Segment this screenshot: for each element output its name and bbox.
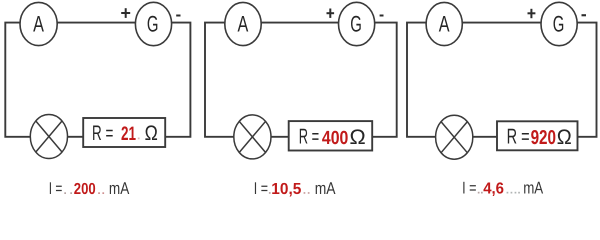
dotted blank before I3 value (478, 192, 483, 194)
wire top-mid c3 (462, 22, 541, 24)
dotted blank before I1 value (64, 192, 72, 194)
resistor R3 box (497, 121, 578, 150)
svg-text:400: 400 (322, 128, 348, 149)
resistor R2 box (289, 121, 373, 150)
svg-text:A: A (238, 11, 249, 36)
plus label c3 (528, 9, 536, 18)
ammeter A3 (426, 2, 462, 45)
galvanometer G1 (135, 2, 171, 45)
svg-text:R =: R = (299, 125, 319, 149)
svg-text:200: 200 (74, 181, 96, 198)
dotted blank before I2 value (269, 192, 271, 194)
svg-text:R =: R = (92, 122, 113, 145)
wire box-to-lamp c1 (68, 136, 84, 138)
wire left loop c2 (205, 23, 234, 137)
lamp L1 (30, 115, 67, 159)
svg-text:10,5: 10,5 (271, 181, 301, 198)
dotted blank after I3 value (507, 192, 520, 194)
svg-text:920: 920 (531, 127, 556, 149)
dotted blank after I1 value (98, 192, 104, 194)
svg-text:G: G (147, 12, 159, 37)
wire box-to-lamp c3 (473, 136, 497, 138)
svg-text:Ω: Ω (145, 122, 158, 145)
svg-text:A: A (439, 11, 450, 36)
ammeter A1 (20, 2, 57, 45)
wire box-to-lamp c2 (271, 136, 289, 138)
svg-text:I =: I = (49, 179, 63, 198)
svg-text:R =: R = (507, 125, 530, 149)
svg-text:mA: mA (315, 179, 336, 198)
plus label c1 (121, 8, 130, 18)
svg-text:G: G (553, 12, 565, 37)
plus label c2 (327, 9, 335, 18)
svg-text:I =: I = (462, 179, 476, 198)
svg-text:Ω: Ω (557, 126, 572, 149)
lamp L2 (234, 115, 271, 159)
svg-text:I =: I = (254, 179, 268, 198)
lamp L3 (436, 115, 473, 159)
minus label c3 (582, 14, 587, 16)
dotted blank remnant in R1 box (138, 138, 140, 140)
svg-text:21: 21 (121, 123, 136, 145)
ammeter A2 (225, 2, 261, 45)
wire top-mid c2 (261, 22, 338, 24)
galvanometer G2 (339, 2, 375, 45)
svg-text:mA: mA (523, 179, 544, 198)
svg-text:A: A (33, 11, 44, 36)
wire left loop c3 (407, 23, 436, 137)
resistor R1 box (83, 118, 165, 147)
svg-text:Ω: Ω (350, 126, 366, 149)
minus label c2 (380, 15, 384, 17)
wire left loop c1 (5, 23, 30, 137)
galvanometer G3 (541, 2, 577, 45)
wire top-mid c1 (57, 22, 136, 24)
wire right loop c1 (166, 23, 191, 137)
svg-text:G: G (350, 12, 362, 37)
minus label c1 (176, 15, 180, 17)
svg-text:mA: mA (109, 179, 130, 198)
dotted blank after I2 value (304, 192, 310, 194)
wire right loop c3 (577, 23, 596, 137)
svg-text:4,6: 4,6 (483, 181, 504, 198)
wire right loop c2 (372, 23, 397, 137)
